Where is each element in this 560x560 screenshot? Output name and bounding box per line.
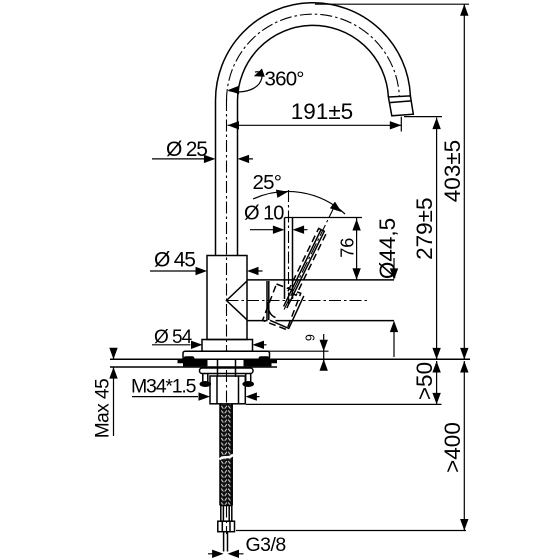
spout centerline arc <box>226 14 399 101</box>
svg-text:Max 45: Max 45 <box>93 379 114 438</box>
svg-text:G3/8: G3/8 <box>246 534 286 556</box>
hose break <box>220 455 234 460</box>
ref line flange bottom <box>251 350 329 352</box>
lever dashed outline <box>288 228 327 295</box>
dim gt400 line <box>463 361 465 531</box>
dim 403 line <box>463 4 465 359</box>
lever centerline <box>283 207 334 311</box>
dim 279 line <box>436 118 438 360</box>
191 extension line <box>400 117 402 132</box>
stud left <box>203 374 208 382</box>
cap junction vertical line <box>266 281 268 320</box>
svg-text:>50: >50 <box>412 362 437 400</box>
stud foot right <box>242 381 254 387</box>
shank lines <box>218 359 236 377</box>
G38 leader line <box>236 530 466 532</box>
deck dark band right <box>244 360 278 366</box>
360 arc <box>229 72 262 92</box>
25 degree arc <box>253 191 345 214</box>
body Ø45 <box>207 256 247 340</box>
top extension line <box>315 3 469 5</box>
pipe centerline <box>226 99 228 352</box>
housing joint vertical <box>268 281 270 320</box>
lever tilted group <box>279 205 338 313</box>
flange Ø54 <box>202 340 253 352</box>
stud foot left <box>200 381 212 387</box>
escutcheon dark right <box>259 356 270 361</box>
dim gt50 line <box>436 361 438 404</box>
deck bottom line <box>110 366 277 368</box>
dim 76 <box>356 218 358 280</box>
svg-text:25°: 25° <box>253 171 282 194</box>
escutcheon <box>183 351 270 359</box>
cap bottom arc <box>268 302 276 318</box>
aerator outlet <box>388 96 413 116</box>
deck dark band left <box>178 360 208 366</box>
bottom pipe <box>224 532 228 552</box>
svg-text:360°: 360° <box>265 68 304 91</box>
svg-text:9: 9 <box>304 334 318 341</box>
lever inner solid lines <box>284 230 325 308</box>
25 arc arrow right <box>330 202 344 216</box>
rod top line to 76 dim <box>285 217 363 219</box>
svg-text:M34*1.5: M34*1.5 <box>131 376 197 398</box>
housing bottom line <box>247 320 394 322</box>
dim G38 arrows <box>208 553 244 555</box>
escutcheon dark left <box>184 356 195 361</box>
ferrule <box>221 506 232 522</box>
pipe right edge <box>237 101 239 256</box>
svg-text:191±5: 191±5 <box>291 99 353 124</box>
dim 9 <box>323 334 325 370</box>
360 arrow left <box>227 86 239 95</box>
rod centerline <box>288 190 290 307</box>
aerator joint line <box>389 101 411 103</box>
svg-text:279±5: 279±5 <box>412 197 437 259</box>
nut facets <box>217 376 239 404</box>
pipe left edge <box>215 101 217 256</box>
housing top line <box>247 279 394 281</box>
washer bar <box>200 368 254 374</box>
body cone wedge <box>227 281 248 320</box>
dim d44.5 <box>393 258 395 357</box>
25 arc arrow left <box>276 188 289 198</box>
svg-text:76: 76 <box>338 238 358 258</box>
stud right <box>246 374 251 382</box>
svg-text:Ø44,5: Ø44,5 <box>375 218 400 279</box>
svg-text:Ø 10: Ø 10 <box>244 203 284 225</box>
dim 191 line <box>228 124 402 126</box>
handle rod vertical <box>285 218 293 300</box>
svg-text:403±5: 403±5 <box>440 140 465 202</box>
G38 nut <box>218 521 235 532</box>
spout inner arc <box>237 25 388 101</box>
cap dashed <box>263 284 301 330</box>
cap solid outline <box>270 296 304 329</box>
360 hook arrow <box>254 69 265 77</box>
mounting nut <box>210 376 245 404</box>
hose centerline <box>226 370 228 534</box>
svg-text:>400: >400 <box>440 422 465 473</box>
ref line below nut <box>246 403 442 405</box>
deck top line <box>110 358 470 360</box>
hose braided <box>220 404 232 506</box>
svg-text:Ø 25: Ø 25 <box>166 138 207 161</box>
housing centerline <box>227 300 369 302</box>
spout tip extension line <box>404 116 442 118</box>
dim max45 <box>113 348 115 436</box>
svg-text:Ø 45: Ø 45 <box>154 249 195 272</box>
spout outer arc <box>215 3 410 101</box>
